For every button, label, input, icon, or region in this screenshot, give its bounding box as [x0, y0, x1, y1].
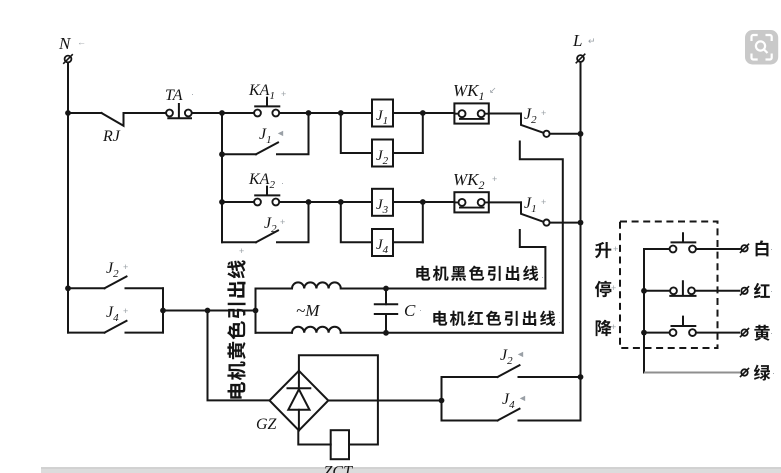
svg-text:~M: ~M [296, 301, 320, 320]
svg-text:·: · [772, 368, 775, 378]
svg-text:+: + [281, 89, 286, 99]
svg-text:+: + [123, 262, 128, 272]
svg-text:·: · [191, 89, 194, 99]
svg-text:←: ← [77, 37, 86, 47]
svg-text:·: · [770, 244, 773, 254]
svg-text:◄: ◄ [518, 393, 527, 403]
svg-text:+: + [492, 174, 497, 184]
svg-text:+: + [239, 246, 244, 256]
svg-text:L: L [572, 31, 582, 50]
svg-text:◄: ◄ [276, 128, 285, 138]
svg-text:·: · [558, 317, 561, 327]
svg-text:↵: ↵ [588, 36, 596, 46]
svg-text:+: + [541, 197, 546, 207]
svg-text:·: · [770, 286, 773, 296]
svg-text:+: + [611, 322, 616, 332]
svg-text:·: · [770, 328, 773, 338]
svg-text:+: + [611, 283, 616, 293]
svg-text:N: N [58, 34, 72, 53]
svg-text:+: + [280, 217, 285, 227]
svg-text:ZCT: ZCT [324, 464, 354, 473]
svg-text:·: · [419, 305, 422, 315]
svg-text:+: + [541, 108, 546, 118]
svg-text:RJ: RJ [102, 128, 121, 145]
svg-text:↙: ↙ [489, 85, 497, 95]
svg-text:TA: TA [165, 87, 183, 104]
svg-text:◄: ◄ [516, 349, 525, 359]
svg-text:·: · [281, 178, 284, 188]
svg-text:GZ: GZ [256, 416, 278, 433]
svg-text:+: + [613, 244, 618, 254]
svg-text:·: · [541, 272, 544, 282]
svg-text:C: C [404, 301, 416, 320]
svg-text:+: + [123, 306, 128, 316]
